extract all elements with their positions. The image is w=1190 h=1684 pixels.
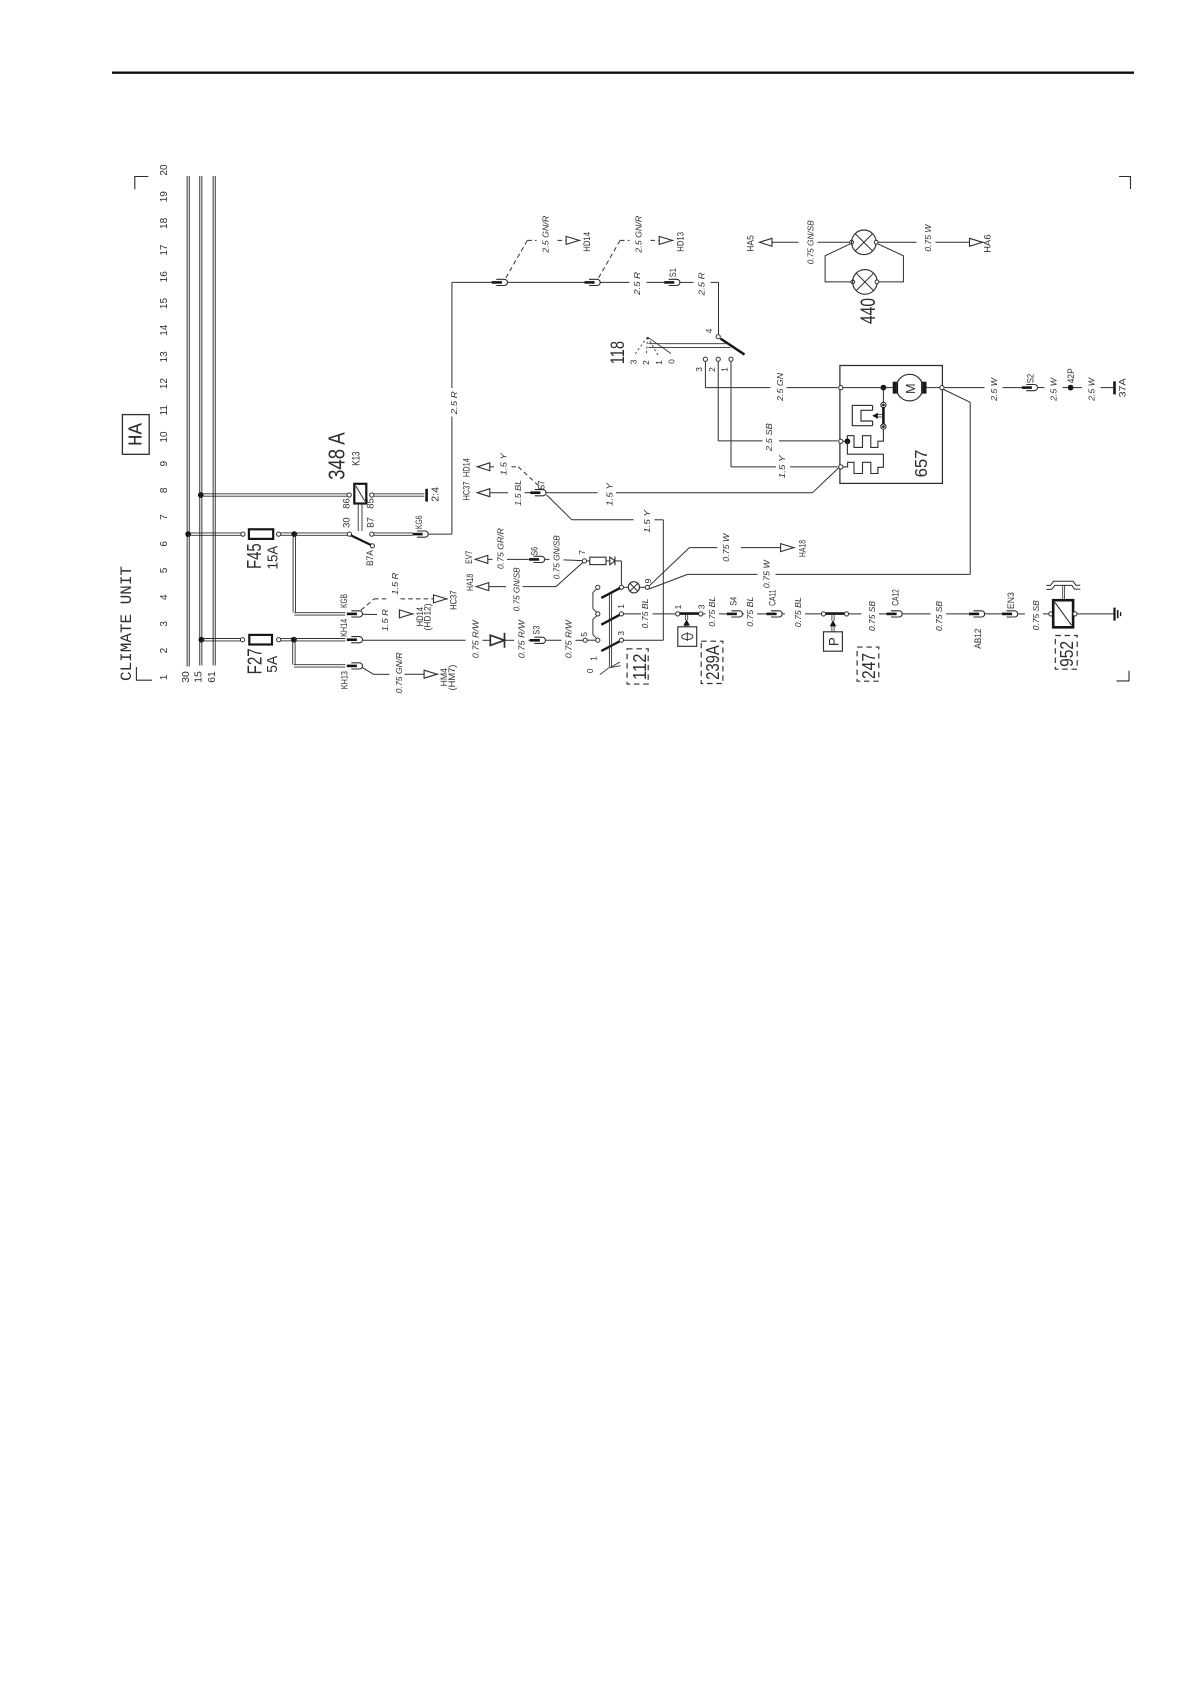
solenoid label box 952 bbox=[1055, 636, 1077, 670]
motor M 657 bbox=[893, 382, 898, 394]
connector KH14 bbox=[351, 637, 362, 643]
svg-text:EV7: EV7 bbox=[464, 551, 474, 564]
svg-text:4: 4 bbox=[159, 594, 170, 600]
svg-text:5: 5 bbox=[159, 567, 170, 573]
wire 0.75 SB bbox=[849, 613, 862, 615]
wire bbox=[985, 613, 1003, 615]
junction node bbox=[881, 385, 887, 391]
svg-text:K13: K13 bbox=[350, 452, 362, 466]
svg-text:S6: S6 bbox=[530, 547, 540, 556]
wire 1.5 Y to 657 bbox=[546, 492, 598, 494]
wire rail15 to F27 bbox=[201, 638, 240, 640]
thermal switch link bbox=[882, 388, 884, 403]
connector S1 bbox=[669, 279, 680, 285]
svg-text:0.75 SB: 0.75 SB bbox=[868, 600, 877, 631]
wire bbox=[507, 281, 585, 283]
branch 1.5 Y to switch 112 bbox=[547, 495, 572, 520]
svg-text:S2: S2 bbox=[1026, 374, 1036, 384]
solenoid 952 box bbox=[1053, 600, 1073, 627]
switch 112 contact 3 bbox=[619, 638, 623, 642]
svg-text:HA5: HA5 bbox=[745, 235, 755, 252]
svg-text:0.75 GN/SB: 0.75 GN/SB bbox=[553, 535, 562, 580]
pressure switch terminal bbox=[821, 612, 825, 616]
wire 0.75 BL to thermostat bbox=[624, 613, 641, 615]
connector S3 bbox=[534, 637, 545, 643]
thermostat label box 239A bbox=[701, 641, 723, 683]
svg-text:348 A: 348 A bbox=[324, 432, 350, 480]
relay contact B7A bbox=[370, 544, 374, 548]
svg-text:15: 15 bbox=[159, 298, 170, 310]
connector KH13 bbox=[351, 663, 362, 669]
thermostat contact bar bbox=[680, 612, 699, 615]
svg-text:657: 657 bbox=[911, 450, 931, 478]
bus rail 15 bbox=[199, 176, 201, 666]
wire drop to switch 118 bbox=[718, 282, 720, 334]
svg-text:12: 12 bbox=[159, 378, 170, 390]
svg-text:HA18: HA18 bbox=[798, 540, 808, 557]
svg-text:0.75 BL: 0.75 BL bbox=[641, 599, 650, 629]
bus rail 30 bbox=[186, 176, 188, 666]
svg-text:19: 19 bbox=[159, 191, 170, 203]
wire F27 to node bbox=[281, 638, 294, 640]
arrow HA18 outgoing bbox=[781, 544, 794, 552]
svg-text:S3: S3 bbox=[531, 626, 541, 635]
svg-text:F45: F45 bbox=[244, 543, 266, 569]
wire 0.75 W to arrow HA18 bbox=[649, 548, 689, 586]
thermostat sensor box bbox=[678, 627, 697, 647]
657 terminal 2 bbox=[839, 439, 843, 443]
switch 118 contact 4 bbox=[716, 335, 720, 339]
wire node down to KH13 bbox=[292, 641, 294, 665]
arrow HD14 bbox=[566, 236, 579, 244]
wire motor to right terminal bbox=[927, 387, 940, 389]
svg-text:2.5 GN/R: 2.5 GN/R bbox=[541, 215, 550, 253]
relay coil terminal 85 bbox=[370, 493, 374, 497]
svg-text:9: 9 bbox=[643, 578, 653, 583]
wire 2.5 GN contact3 to motor 657 bbox=[704, 361, 706, 387]
svg-text:B7: B7 bbox=[365, 517, 375, 528]
svg-text:2:4: 2:4 bbox=[429, 487, 441, 502]
frame corner bottom-left bbox=[136, 667, 152, 680]
ground 37A bbox=[1113, 381, 1116, 394]
svg-text:S1: S1 bbox=[668, 268, 678, 277]
connector CA11 bbox=[771, 611, 782, 617]
svg-text:CA11: CA11 bbox=[768, 590, 778, 606]
blower unit 657 box bbox=[840, 366, 943, 484]
switch 118 contact 3 bbox=[703, 357, 707, 361]
svg-text:HC37: HC37 bbox=[462, 482, 472, 501]
svg-text:42P: 42P bbox=[1066, 368, 1076, 383]
657 right terminal bbox=[940, 386, 944, 390]
svg-text:1.5 Y: 1.5 Y bbox=[643, 509, 652, 533]
svg-text:0.75 R/W: 0.75 R/W bbox=[518, 619, 527, 659]
wire 0.75 GR/R to S6 bbox=[488, 558, 493, 560]
657 terminal 3 bbox=[839, 465, 843, 469]
wire KG6 to corner bbox=[428, 533, 452, 535]
svg-text:4: 4 bbox=[704, 328, 714, 333]
svg-text:1: 1 bbox=[720, 367, 730, 372]
svg-text:1.5 Y: 1.5 Y bbox=[499, 453, 508, 476]
svg-text:18: 18 bbox=[159, 217, 170, 229]
svg-text:0.75 W: 0.75 W bbox=[763, 559, 772, 589]
wire relay B7 to connector KG6 bbox=[374, 532, 413, 534]
wire node to KH14 bbox=[294, 638, 346, 640]
fuse F27 terminal bbox=[277, 638, 281, 642]
wire 0.75 R/W bbox=[505, 639, 515, 641]
arrow HD14 (HD12) bbox=[399, 610, 412, 618]
svg-text:0.75 W: 0.75 W bbox=[924, 223, 933, 252]
svg-text:3: 3 bbox=[159, 621, 170, 627]
inline connector bbox=[589, 279, 600, 285]
node on rail 15 for relay coil bbox=[198, 492, 204, 498]
dashed 1.5 R to HC37 arrow bbox=[361, 599, 374, 610]
switch lamp terminal bbox=[619, 585, 623, 589]
ground 2:4 bbox=[425, 489, 428, 502]
svg-text:5: 5 bbox=[579, 632, 589, 637]
svg-text:61: 61 bbox=[207, 671, 218, 683]
wire 2.5 W motor to S2 bbox=[944, 387, 985, 389]
wire 0.75 BL bbox=[782, 613, 785, 615]
svg-text:17: 17 bbox=[159, 244, 170, 256]
wire terminal to motor bbox=[843, 387, 893, 389]
diode bbox=[490, 635, 504, 645]
svg-text:HA: HA bbox=[125, 422, 147, 446]
pressure switch contact bar bbox=[826, 612, 845, 615]
switch 112 lever 3 bbox=[601, 641, 620, 651]
pressure switch box P bbox=[824, 632, 843, 651]
solenoid 952 terminal bbox=[1049, 612, 1053, 616]
svg-text:3: 3 bbox=[628, 359, 638, 364]
switch 112 common bracket bbox=[593, 589, 597, 638]
lamp 440 upper bbox=[850, 240, 854, 244]
splice node 42P bbox=[1068, 385, 1074, 391]
switch 112 contact 1 bbox=[619, 612, 623, 616]
svg-text:0.75 GR/R: 0.75 GR/R bbox=[496, 528, 505, 569]
switch illumination lamp bbox=[624, 586, 629, 588]
svg-text:0.75 R/W: 0.75 R/W bbox=[471, 619, 480, 659]
arrow HM4 (HM7) bbox=[424, 670, 437, 678]
svg-text:20: 20 bbox=[159, 164, 170, 176]
svg-text:CLIMATE UNIT: CLIMATE UNIT bbox=[118, 566, 136, 681]
svg-text:HD14: HD14 bbox=[462, 458, 472, 477]
fuse F45 bbox=[249, 529, 273, 539]
svg-text:2.5 R: 2.5 R bbox=[450, 391, 459, 415]
svg-text:HA18: HA18 bbox=[465, 574, 475, 591]
page code box HA bbox=[122, 415, 149, 455]
svg-text:0.75 SB: 0.75 SB bbox=[1032, 600, 1041, 631]
svg-text:10: 10 bbox=[159, 431, 170, 443]
wire 0.75 GN/R to HM4 bbox=[362, 667, 374, 674]
svg-text:2.5 SB: 2.5 SB bbox=[765, 422, 774, 452]
svg-text:2: 2 bbox=[641, 360, 651, 365]
wire 0.75 SB bbox=[1018, 613, 1026, 615]
svg-text:1: 1 bbox=[654, 360, 664, 365]
resistor element upper bbox=[847, 429, 883, 447]
svg-text:6: 6 bbox=[159, 541, 170, 547]
svg-text:HD14: HD14 bbox=[582, 232, 592, 252]
svg-text:0.75 GN/SB: 0.75 GN/SB bbox=[806, 220, 815, 265]
svg-text:16: 16 bbox=[159, 271, 170, 283]
solenoid vent symbol bbox=[1046, 581, 1080, 585]
svg-text:0.75 GN/SB: 0.75 GN/SB bbox=[512, 567, 521, 612]
svg-text:0.75 SB: 0.75 SB bbox=[935, 600, 944, 631]
svg-text:1: 1 bbox=[616, 604, 626, 609]
svg-text:1.5 R: 1.5 R bbox=[391, 572, 400, 594]
svg-text:247: 247 bbox=[859, 653, 879, 679]
thermal cutout element bbox=[852, 405, 872, 425]
switch 118 contact 2 bbox=[716, 357, 720, 361]
wire with 2.5 R label bbox=[680, 281, 694, 283]
wire 2.5 SB contact2 to 657 bbox=[717, 361, 719, 441]
svg-text:2.5 W: 2.5 W bbox=[990, 376, 999, 402]
wire rail15 to relay 86 bbox=[201, 493, 347, 495]
657 terminal bbox=[839, 386, 843, 390]
svg-text:30: 30 bbox=[341, 517, 351, 528]
svg-text:85: 85 bbox=[365, 498, 375, 509]
bracket contact bbox=[596, 585, 600, 589]
svg-text:7: 7 bbox=[577, 550, 587, 555]
svg-text:2: 2 bbox=[707, 367, 717, 372]
arrow HA6 bbox=[970, 238, 983, 246]
wire rail30 to F45 bbox=[188, 532, 241, 534]
thermal switch arrow bbox=[878, 414, 884, 416]
switch 118 lever bbox=[720, 339, 744, 355]
arrow HD13 bbox=[659, 236, 672, 244]
relay contact lever bbox=[351, 536, 371, 545]
svg-text:(HD12): (HD12) bbox=[422, 603, 432, 630]
relay contact 30 bbox=[347, 532, 351, 536]
svg-text:CA12: CA12 bbox=[890, 589, 900, 606]
node on rail 30 for F45 bbox=[185, 531, 191, 537]
wire 2.5 W bbox=[1037, 387, 1044, 389]
svg-text:KH13: KH13 bbox=[339, 671, 349, 689]
svg-text:P: P bbox=[826, 637, 841, 646]
wire 0.75 GN/SB to contact 7 bbox=[545, 558, 550, 560]
svg-text:15A: 15A bbox=[266, 545, 282, 569]
junction node after F45 bbox=[291, 531, 297, 537]
svg-text:HD13: HD13 bbox=[675, 232, 685, 252]
junction node after F27 bbox=[291, 637, 297, 643]
svg-text:(HM7): (HM7) bbox=[447, 665, 457, 691]
wire to lamp bbox=[615, 560, 622, 562]
switch lamp terminal 9 bbox=[645, 585, 649, 589]
svg-text:86: 86 bbox=[341, 498, 351, 509]
svg-text:952: 952 bbox=[1057, 641, 1077, 667]
svg-text:2.5 GN/R: 2.5 GN/R bbox=[635, 215, 644, 253]
connector S2 bbox=[1026, 385, 1037, 391]
connector S4 bbox=[731, 611, 742, 617]
relay coil terminal 86 bbox=[347, 493, 351, 497]
wire node to KGB drop bbox=[292, 535, 294, 612]
relay contact B7 bbox=[370, 532, 374, 536]
switch 118 selector shaft bbox=[649, 343, 731, 345]
connector KG6 bbox=[417, 531, 428, 537]
svg-text:0: 0 bbox=[667, 359, 677, 364]
connector S7 bbox=[535, 490, 546, 496]
lamp 440 lower bbox=[851, 280, 855, 284]
svg-text:13: 13 bbox=[159, 351, 170, 363]
inline connector bbox=[496, 279, 507, 285]
svg-text:7: 7 bbox=[159, 514, 170, 520]
svg-text:11: 11 bbox=[159, 405, 170, 416]
chassis ground bbox=[1113, 608, 1115, 621]
switch 112 label box bbox=[627, 649, 648, 684]
node on rail 15 for F27 bbox=[199, 637, 205, 643]
svg-text:M: M bbox=[904, 383, 918, 393]
connector AB12 bbox=[974, 611, 985, 617]
thermostat actuator bbox=[685, 615, 687, 620]
svg-text:0: 0 bbox=[585, 668, 595, 673]
detent pointer bbox=[610, 662, 620, 668]
wire 2.5 R main bbox=[452, 281, 492, 283]
wire 0.75 GN/SB to lamp bbox=[772, 241, 799, 243]
svg-text:30: 30 bbox=[181, 671, 192, 683]
svg-text:1.5 BL: 1.5 BL bbox=[514, 480, 523, 506]
svg-text:S7: S7 bbox=[536, 481, 546, 490]
svg-text:1: 1 bbox=[673, 604, 683, 609]
svg-text:3: 3 bbox=[616, 631, 626, 636]
illumination resistor bbox=[587, 560, 590, 562]
svg-text:0.75 R/W: 0.75 R/W bbox=[565, 619, 574, 659]
frame corner top-right bbox=[1119, 177, 1131, 190]
junction node bbox=[845, 438, 851, 444]
svg-text:KG6: KG6 bbox=[414, 516, 424, 530]
svg-text:1.5 Y: 1.5 Y bbox=[605, 482, 614, 506]
svg-text:239A: 239A bbox=[703, 645, 723, 680]
relay actuator link bbox=[357, 504, 359, 532]
fuse F45 terminal bbox=[241, 532, 245, 536]
svg-text:S4: S4 bbox=[729, 597, 739, 606]
svg-text:KH14: KH14 bbox=[339, 619, 349, 637]
bus rail 61 bbox=[212, 176, 214, 666]
bracket contact bbox=[596, 612, 600, 616]
svg-text:440: 440 bbox=[857, 298, 880, 324]
svg-text:HA6: HA6 bbox=[982, 234, 992, 252]
svg-text:1.5 R: 1.5 R bbox=[381, 609, 390, 631]
dashed branch to HD13 arrow bbox=[599, 240, 621, 277]
wire to ground bbox=[1077, 613, 1113, 615]
svg-text:0.75 BL: 0.75 BL bbox=[746, 597, 755, 627]
wire relay 85 to ground 2:4 bbox=[374, 493, 424, 495]
frame corner bottom-right bbox=[1117, 671, 1130, 681]
wire 0.75 R/W to contact 5 bbox=[545, 639, 561, 641]
wire 0.75 BL bbox=[742, 613, 744, 615]
pressure switch actuator bbox=[831, 615, 833, 621]
arrow HC37 bbox=[434, 595, 447, 603]
relay K13 coil box bbox=[354, 484, 366, 504]
svg-text:1.5 Y: 1.5 Y bbox=[778, 455, 787, 479]
bracket contact bbox=[596, 638, 600, 642]
wire 2.5 R riser bbox=[451, 417, 453, 535]
lamp loop left bbox=[825, 244, 851, 282]
wire F45 to node bbox=[281, 532, 295, 534]
svg-text:9: 9 bbox=[159, 460, 170, 466]
svg-text:F27: F27 bbox=[244, 648, 266, 674]
svg-text:1: 1 bbox=[159, 674, 170, 680]
svg-text:KGB: KGB bbox=[339, 594, 349, 608]
svg-text:0.75 GN/R: 0.75 GN/R bbox=[395, 652, 404, 693]
svg-text:2.5 GN: 2.5 GN bbox=[776, 373, 785, 402]
svg-text:5A: 5A bbox=[265, 655, 281, 672]
switch 112 detent shaft bbox=[608, 593, 610, 668]
svg-text:B7A: B7A bbox=[365, 550, 375, 566]
svg-text:2.5 R: 2.5 R bbox=[697, 272, 706, 296]
switch 112 lever 2 bbox=[601, 615, 620, 625]
svg-text:1: 1 bbox=[588, 656, 598, 661]
solenoid 952 terminal bbox=[1073, 612, 1077, 616]
thermostat terminal 3 bbox=[699, 612, 703, 616]
svg-text:0.75 BL: 0.75 BL bbox=[708, 597, 717, 627]
pressure switch label box 247 bbox=[857, 647, 879, 681]
dashed branch to HD14 arrow bbox=[506, 240, 527, 277]
svg-text:2.5 R: 2.5 R bbox=[633, 272, 642, 296]
svg-text:EN3: EN3 bbox=[1006, 592, 1016, 609]
svg-text:3: 3 bbox=[694, 367, 704, 372]
svg-text:112: 112 bbox=[630, 654, 650, 681]
wire 0.75 BL bbox=[703, 613, 706, 615]
svg-text:2: 2 bbox=[159, 647, 170, 653]
wire with 2.5 R label bbox=[600, 281, 630, 283]
svg-text:2.5 W: 2.5 W bbox=[1087, 376, 1096, 402]
svg-text:15: 15 bbox=[194, 671, 205, 683]
fuse F45 terminal bbox=[277, 532, 281, 536]
connector S6 bbox=[534, 556, 545, 562]
pressure switch terminal bbox=[844, 612, 848, 616]
wire motor terminal to switch lamp bbox=[944, 390, 971, 403]
fuse F27 bbox=[249, 635, 272, 645]
svg-text:HC37: HC37 bbox=[449, 591, 459, 610]
svg-text:2.5 W: 2.5 W bbox=[1049, 376, 1058, 402]
wire 0.75 R/W from KH14 bbox=[362, 639, 465, 641]
wire 0.75 W to motor bbox=[649, 574, 687, 589]
switch 118 contact 1 bbox=[729, 357, 733, 361]
fuse F27 terminal bbox=[241, 638, 245, 642]
svg-text:37A: 37A bbox=[1117, 377, 1127, 397]
wire 0.75 GN/SB to contact 7 bbox=[489, 586, 506, 588]
svg-text:AB12: AB12 bbox=[973, 629, 983, 649]
wire node to relay contact 30 bbox=[294, 532, 347, 534]
switch 112 contact 5 bbox=[583, 638, 587, 642]
connector EN3 bbox=[1007, 611, 1018, 617]
svg-text:118: 118 bbox=[607, 341, 629, 364]
wire 0.75 SB bbox=[902, 613, 931, 615]
wire 0.75 W to HA6 bbox=[878, 241, 916, 243]
illumination diode bbox=[606, 560, 610, 562]
svg-text:14: 14 bbox=[159, 324, 170, 336]
switch 112 lever 1 bbox=[601, 588, 620, 598]
wire 1.5 R to HD14 arrow bbox=[362, 613, 377, 615]
resistor element lower bbox=[843, 441, 883, 473]
switch 112 contact 7 bbox=[582, 559, 586, 563]
connector KGB bbox=[351, 611, 362, 617]
switch 118 position fan bbox=[634, 337, 647, 355]
svg-text:8: 8 bbox=[159, 487, 170, 493]
frame corner top-left bbox=[135, 177, 149, 190]
connector CA12 bbox=[891, 611, 902, 617]
lamp loop right bbox=[878, 244, 903, 282]
svg-text:3: 3 bbox=[696, 604, 706, 609]
wire 2.5 W to ground bbox=[1074, 387, 1083, 389]
svg-text:0.75 BL: 0.75 BL bbox=[794, 597, 803, 627]
wire 1.5 Y contact1 to 657 bbox=[730, 361, 732, 467]
header rule bbox=[112, 72, 1134, 74]
svg-text:0.75 W: 0.75 W bbox=[722, 532, 731, 562]
thermostat terminal 1 bbox=[676, 612, 680, 616]
